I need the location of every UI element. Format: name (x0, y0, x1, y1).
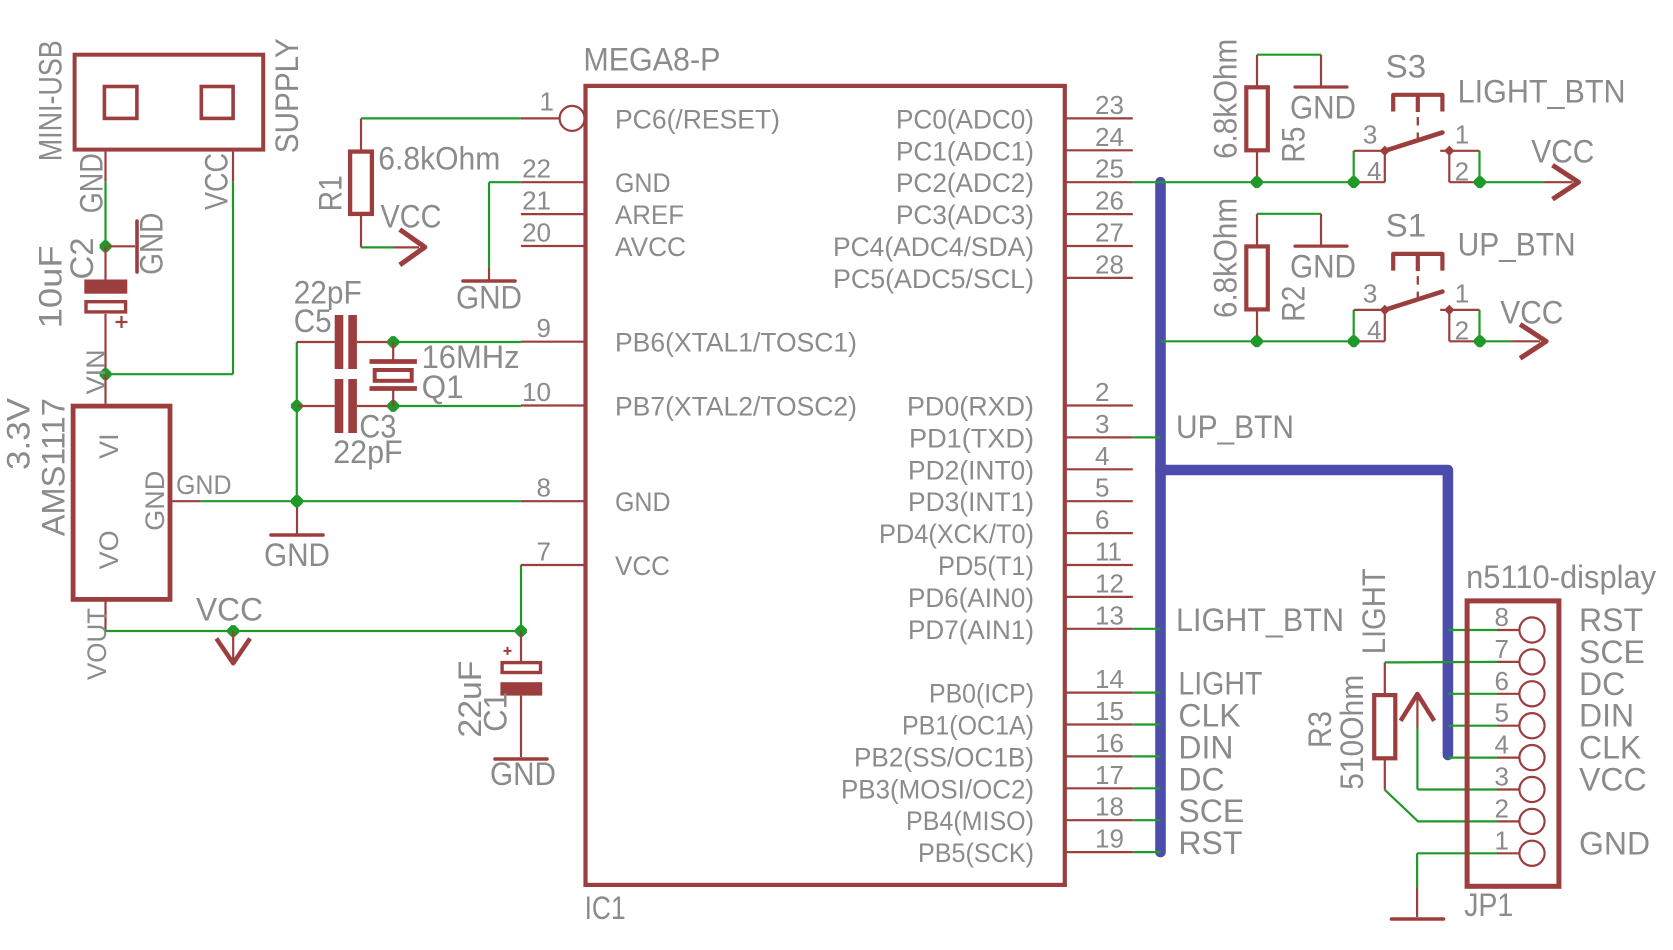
svg-text:3: 3 (1363, 120, 1377, 150)
pin 11 PD5(T1) of IC1 (1065, 564, 1133, 566)
pin 10 PB7(XTAL2/TOSC2) of IC1 (521, 404, 586, 406)
svg-text:PD5(T1): PD5(T1) (938, 551, 1034, 581)
svg-text:2: 2 (1495, 793, 1509, 823)
svg-text:VI: VI (94, 433, 124, 459)
svg-text:CLK: CLK (1178, 698, 1240, 734)
connector X1 MINI-USB SUPPLY (75, 55, 264, 150)
junction sw pin2 (1474, 335, 1486, 347)
svg-text:VCC: VCC (1500, 294, 1563, 330)
pin 14 PB0(ICP) of IC1 (1065, 691, 1133, 693)
svg-text:23: 23 (1095, 90, 1124, 120)
wire R5 top to ground (1257, 54, 1321, 56)
svg-text:25: 25 (1095, 154, 1124, 184)
svg-text:UP_BTN: UP_BTN (1458, 227, 1576, 263)
pin 21 AREF of IC1 (521, 213, 586, 215)
wire GND to JP1 pin1 (1417, 852, 1497, 854)
pin 19 PB5(SCK) of IC1 (1065, 851, 1133, 853)
pin 20 AVCC of IC1 (521, 245, 586, 247)
svg-text:19: 19 (1095, 824, 1124, 854)
wire to IC1 pin7 (520, 565, 522, 631)
svg-text:R1: R1 (312, 175, 348, 211)
pin 5 of JP1 (1497, 725, 1519, 727)
svg-text:S1: S1 (1386, 208, 1427, 244)
pin 17 PB3(MOSI/OC2) of IC1 (1065, 787, 1133, 789)
svg-text:GND: GND (176, 470, 232, 500)
svg-text:3: 3 (1095, 409, 1109, 439)
svg-text:C2: C2 (64, 238, 100, 280)
svg-text:C1: C1 (478, 692, 514, 732)
svg-text:R5: R5 (1276, 127, 1312, 163)
svg-text:IC1: IC1 (585, 890, 626, 926)
svg-text:DC: DC (1579, 666, 1625, 702)
wire net to bus (1133, 181, 1161, 183)
svg-text:7: 7 (1495, 634, 1509, 664)
ground at C1 (495, 757, 547, 761)
svg-text:VOUT: VOUT (82, 608, 112, 680)
svg-text:MEGA8-P: MEGA8-P (583, 42, 720, 78)
svg-text:3.3V: 3.3V (1, 397, 37, 470)
svg-text:8: 8 (537, 473, 551, 503)
wire S1 row (1161, 340, 1354, 342)
svg-text:SUPPLY: SUPPLY (269, 38, 305, 153)
pin 12 PD6(AIN0) of IC1 (1065, 596, 1133, 598)
pin 5 PD3(INT1) of IC1 (1065, 500, 1133, 502)
svg-text:PC5(ADC5/SCL): PC5(ADC5/SCL) (833, 264, 1034, 294)
wire VCC to JP1 pin3 (1416, 728, 1418, 790)
svg-text:GND: GND (1290, 249, 1356, 285)
svg-text:VCC: VCC (615, 551, 670, 581)
wire R1 to PC6 (361, 117, 521, 119)
svg-text:SCE: SCE (1579, 634, 1645, 670)
pin 9 PB6(XTAL1/TOSC1) of IC1 (521, 341, 586, 343)
pin VOUT of U1 (104, 600, 106, 631)
svg-text:VCC: VCC (196, 592, 263, 628)
connector JP1 n5110-display (1467, 601, 1559, 886)
svg-text:PD3(INT1): PD3(INT1) (908, 487, 1034, 517)
wire net to bus (1133, 755, 1161, 757)
wire net to bus (1133, 819, 1161, 821)
svg-text:VO: VO (94, 530, 124, 569)
svg-text:GND: GND (1579, 825, 1650, 861)
svg-text:PB6(XTAL1/TOSC1): PB6(XTAL1/TOSC1) (615, 328, 857, 358)
svg-text:10uF: 10uF (33, 245, 69, 328)
svg-text:6.8kOhm: 6.8kOhm (378, 140, 500, 176)
pin 7 of JP1 (1497, 661, 1519, 663)
svg-text:DIN: DIN (1579, 698, 1634, 734)
resistor R1 6.8kOhm (350, 152, 372, 214)
wire net to bus (1133, 851, 1161, 853)
junction GND node (291, 495, 303, 507)
junction GND rail (291, 495, 303, 507)
crystal Q1 16MHz (392, 342, 394, 362)
svg-text:UP_BTN: UP_BTN (1176, 409, 1294, 445)
junction C3 left (291, 400, 303, 412)
wire to PB7 (393, 405, 521, 407)
svg-text:510Ohm: 510Ohm (1334, 675, 1370, 790)
pin 8 of JP1 (1497, 629, 1519, 631)
capacitor C3 22pF (297, 405, 335, 407)
pin 3 PD1(TXD) of IC1 (1065, 436, 1133, 438)
svg-text:GND: GND (264, 537, 330, 573)
svg-text:AVCC: AVCC (615, 232, 686, 262)
svg-text:GND: GND (456, 279, 522, 315)
wire net to bus (1133, 436, 1161, 438)
svg-text:9: 9 (537, 313, 551, 343)
svg-text:S3: S3 (1386, 49, 1427, 85)
svg-text:2: 2 (1095, 377, 1109, 407)
pin 18 PB4(MISO) of IC1 (1065, 819, 1133, 821)
pin 24 PC1(ADC1) of IC1 (1065, 149, 1133, 151)
svg-text:JP1: JP1 (1464, 887, 1513, 923)
pin 3 of JP1 (1497, 788, 1519, 790)
power VCC (up arrow) at display (1401, 694, 1435, 721)
wire net to bus (1133, 723, 1161, 725)
junction sw pin2 (1474, 176, 1486, 188)
pin 2 PD0(RXD) of IC1 (1065, 404, 1133, 406)
power VCC at S3 (1545, 181, 1573, 183)
svg-text:PB1(OC1A): PB1(OC1A) (902, 711, 1034, 741)
svg-text:4: 4 (1367, 156, 1381, 186)
svg-text:PB7(XTAL2/TOSC2): PB7(XTAL2/TOSC2) (615, 392, 857, 422)
pin 6 PD4(XCK/T0) of IC1 (1065, 532, 1133, 534)
pin 2 of JP1 (1497, 820, 1519, 822)
svg-text:VCC: VCC (198, 153, 234, 210)
svg-text:PC3(ADC3): PC3(ADC3) (896, 200, 1034, 230)
svg-text:27: 27 (1095, 218, 1124, 248)
resistor R5 6.8kOhm (1246, 87, 1268, 150)
svg-text:PB5(SCK): PB5(SCK) (918, 838, 1034, 868)
junction at VCC arrow (227, 625, 239, 637)
svg-text:R2: R2 (1276, 286, 1312, 322)
svg-text:16: 16 (1095, 728, 1124, 758)
pin 1 of JP1 (1497, 852, 1519, 854)
wire VOUT VCC rail (106, 630, 522, 632)
switch S3 (1393, 95, 1442, 112)
wire R2 top to ground (1257, 213, 1321, 215)
svg-text:CLK: CLK (1579, 730, 1641, 766)
svg-text:3: 3 (1363, 279, 1377, 309)
svg-text:LIGHT: LIGHT (1356, 568, 1392, 654)
switch S1 (1393, 254, 1442, 271)
power VCC at S1 (1512, 340, 1540, 342)
pin 15 PB1(OC1A) of IC1 (1065, 723, 1133, 725)
svg-text:VCC: VCC (381, 199, 442, 235)
svg-text:PC0(ADC0): PC0(ADC0) (896, 104, 1034, 134)
svg-text:PD2(INT0): PD2(INT0) (908, 455, 1034, 485)
svg-text:3: 3 (1495, 762, 1509, 792)
svg-text:22: 22 (522, 154, 551, 184)
svg-text:14: 14 (1095, 664, 1124, 694)
junction at C2 top (100, 240, 112, 252)
svg-text:11: 11 (1095, 537, 1122, 567)
svg-text:PD0(RXD): PD0(RXD) (907, 392, 1034, 422)
svg-text:GND: GND (615, 487, 671, 517)
svg-text:18: 18 (1095, 792, 1124, 822)
wire net to bus (1133, 628, 1161, 630)
resistor R3 510Ohm (1374, 695, 1395, 758)
svg-text:PB4(MISO): PB4(MISO) (906, 806, 1034, 836)
pin VCC of X1 (232, 152, 234, 182)
svg-text:PC4(ADC4/SDA): PC4(ADC4/SDA) (833, 232, 1034, 262)
junction R bottom (1251, 176, 1263, 188)
junction VIN node (100, 368, 112, 380)
svg-text:28: 28 (1095, 249, 1124, 279)
svg-text:17: 17 (1095, 760, 1124, 790)
wire to PB6 (393, 341, 521, 343)
svg-text:5: 5 (1095, 473, 1109, 503)
svg-text:26: 26 (1095, 186, 1124, 216)
svg-text:PB0(ICP): PB0(ICP) (929, 679, 1034, 709)
wire bus to JP1 pins (RST DC DIN CLK) (1448, 629, 1497, 631)
svg-text:PC1(ADC1): PC1(ADC1) (896, 136, 1034, 166)
svg-text:22pF: 22pF (333, 434, 403, 470)
svg-text:6.8kOhm: 6.8kOhm (1208, 39, 1244, 159)
pin 22 GND of IC1 (521, 181, 586, 183)
svg-text:VCC: VCC (1579, 762, 1647, 798)
svg-text:PD6(AIN0): PD6(AIN0) (908, 583, 1034, 613)
pin 1 PC6(/RESET) of IC1 (521, 117, 560, 119)
wire pin22 GND net (489, 181, 521, 183)
svg-text:4: 4 (1367, 315, 1381, 345)
svg-text:5: 5 (1495, 698, 1509, 728)
svg-text:GND: GND (134, 213, 170, 275)
svg-text:10: 10 (522, 377, 551, 407)
ground at C2 (rotated) (108, 245, 135, 247)
svg-text:15: 15 (1095, 696, 1124, 726)
wire X1.VCC down to VIN (232, 182, 234, 375)
junction R bottom (1251, 335, 1263, 347)
pin 13 PD7(AIN1) of IC1 (1065, 628, 1133, 630)
voltage regulator U1 AMS1117 3.3V (73, 406, 170, 599)
svg-text:6: 6 (1095, 505, 1109, 535)
svg-text:20: 20 (522, 218, 551, 248)
svg-text:VIN: VIN (81, 349, 111, 394)
bus B1 vertical (1155, 182, 1166, 852)
svg-text:2: 2 (1455, 316, 1469, 346)
svg-text:C5: C5 (294, 303, 332, 339)
wire X1.GND to C2 (104, 182, 106, 247)
svg-text:GND: GND (490, 756, 556, 792)
svg-text:GND: GND (74, 153, 110, 213)
ground main (296, 501, 298, 533)
svg-text:24: 24 (1095, 122, 1124, 152)
pin 28 PC5(ADC5/SCL) of IC1 (1065, 277, 1133, 279)
pin VIN of U1 (104, 374, 106, 404)
capacitor C2 10uF (104, 246, 106, 279)
svg-text:RST: RST (1178, 825, 1242, 861)
junction sw pin4 (1348, 335, 1360, 347)
svg-text:VCC: VCC (1531, 134, 1594, 170)
pin 4 PD2(INT0) of IC1 (1065, 468, 1133, 470)
svg-text:RST: RST (1579, 602, 1643, 638)
svg-text:SCE: SCE (1178, 793, 1244, 829)
pin 8 GND of IC1 (521, 500, 586, 502)
svg-text:8: 8 (1495, 602, 1509, 632)
svg-text:1: 1 (1455, 120, 1469, 150)
svg-text:1: 1 (1495, 825, 1509, 855)
pin 27 PC4(ADC4/SDA) of IC1 (1065, 245, 1133, 247)
wire U1.GND to IC1 pin8 (201, 500, 521, 502)
svg-text:PB3(MOSI/OC2): PB3(MOSI/OC2) (841, 774, 1034, 804)
pin 23 PC0(ADC0) of IC1 (1065, 117, 1133, 119)
svg-text:LIGHT_BTN: LIGHT_BTN (1458, 74, 1626, 110)
svg-text:GND: GND (615, 168, 671, 198)
pin 4 of JP1 (1497, 756, 1519, 758)
ground at JP1 (1416, 887, 1418, 917)
svg-text:PD4(XCK/T0): PD4(XCK/T0) (879, 519, 1034, 549)
svg-text:2: 2 (1455, 157, 1469, 187)
svg-text:PC2(ADC2): PC2(ADC2) (896, 168, 1034, 198)
junction at C1 (515, 625, 527, 637)
svg-text:DIN: DIN (1178, 729, 1233, 765)
svg-text:AREF: AREF (615, 200, 684, 230)
wire crystal left rail (296, 342, 298, 501)
svg-text:MINI-USB: MINI-USB (33, 40, 69, 161)
svg-text:AMS1117: AMS1117 (36, 398, 72, 536)
svg-text:R3: R3 (1302, 711, 1338, 748)
pin 16 PB2(SS/OC1B) of IC1 (1065, 755, 1133, 757)
pin GND of X1 (104, 152, 106, 182)
svg-text:GND: GND (140, 471, 170, 531)
svg-text:PD1(TXD): PD1(TXD) (909, 423, 1034, 453)
wire R3 bottom to JP1 pin2 (1385, 790, 1497, 822)
svg-text:LIGHT_BTN: LIGHT_BTN (1176, 602, 1344, 638)
svg-text:6.8kOhm: 6.8kOhm (1208, 198, 1244, 318)
IC U1 MEGA8-P body (586, 86, 1065, 885)
svg-text:PB2(SS/OC1B): PB2(SS/OC1B) (854, 742, 1034, 772)
svg-text:GND: GND (1290, 90, 1356, 126)
svg-text:Q1: Q1 (422, 369, 464, 405)
svg-text:6: 6 (1495, 666, 1509, 696)
pin 26 PC3(ADC3) of IC1 (1065, 213, 1133, 215)
junction XTAL2 (387, 400, 399, 412)
svg-text:1: 1 (1455, 279, 1469, 309)
capacitor C1 22uF (520, 631, 522, 661)
pin 25 PC2(ADC2) of IC1 (1065, 181, 1133, 183)
pin 7 VCC of IC1 (521, 564, 586, 566)
wire net to bus (1133, 787, 1161, 789)
resistor R2 6.8kOhm (1246, 246, 1268, 309)
wire net to bus (1133, 691, 1161, 693)
svg-text:13: 13 (1095, 600, 1124, 630)
ground at pin22 (488, 268, 490, 280)
svg-text:n5110-display: n5110-display (1466, 559, 1656, 595)
svg-text:DC: DC (1178, 761, 1224, 797)
junction XTAL1 (387, 336, 399, 348)
svg-text:4: 4 (1495, 730, 1509, 760)
power VCC (down arrow) (232, 631, 234, 660)
pin 6 of JP1 (1497, 693, 1519, 695)
svg-text:PC6(/RESET): PC6(/RESET) (615, 104, 780, 134)
svg-text:1: 1 (540, 87, 554, 117)
svg-text:LIGHT: LIGHT (1178, 666, 1262, 702)
pin GND of U1 (172, 500, 200, 502)
capacitor C5 22pF (297, 341, 335, 343)
power VCC at R1 (361, 246, 394, 248)
bus B1 branch to display (1161, 470, 1448, 755)
ground at R2 (1320, 214, 1322, 245)
wire S3 row (1161, 181, 1354, 183)
svg-text:21: 21 (522, 186, 551, 216)
svg-text:12: 12 (1095, 568, 1124, 598)
ground at R5 (1320, 55, 1322, 86)
svg-text:7: 7 (537, 537, 551, 567)
junction sw pin4 (1348, 176, 1360, 188)
wire R3 top to JP1 pin7 (1385, 661, 1497, 664)
svg-text:4: 4 (1095, 441, 1109, 471)
svg-text:PD7(AIN1): PD7(AIN1) (908, 615, 1034, 645)
